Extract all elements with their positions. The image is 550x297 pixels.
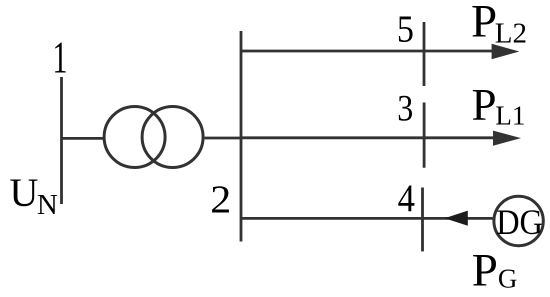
- DG feeder wire: [241, 217, 493, 220]
- wire transformer to bus 2: [205, 137, 241, 140]
- DG source circle: [494, 196, 543, 245]
- arrowhead DG injection: [445, 211, 468, 226]
- svg-text:PG: PG: [472, 245, 518, 297]
- arrowhead load P_L2: [492, 44, 520, 59]
- feeder wire to load L2: [241, 50, 492, 53]
- transformer T1 winding 1: [104, 107, 165, 168]
- svg-text:PL1: PL1: [472, 80, 526, 131]
- svg-text:UN: UN: [10, 170, 58, 221]
- svg-text:PL2: PL2: [471, 0, 527, 50]
- svg-text:3: 3: [397, 89, 413, 130]
- svg-text:2: 2: [210, 178, 231, 221]
- node 5 tick: [423, 22, 426, 86]
- arrowhead load P_L1: [493, 131, 521, 146]
- transformer T1 winding 2: [142, 107, 203, 168]
- node 4 tick: [421, 188, 424, 252]
- svg-text:1: 1: [53, 32, 68, 83]
- wire bus1 to transformer: [62, 137, 105, 140]
- svg-text:5: 5: [397, 8, 414, 50]
- node 3 tick: [423, 103, 426, 168]
- svg-text:DG: DG: [496, 202, 543, 242]
- svg-text:4: 4: [398, 177, 415, 220]
- bus 1: [60, 77, 63, 204]
- feeder wire to load L1: [241, 136, 493, 139]
- bus 2: [240, 31, 243, 242]
